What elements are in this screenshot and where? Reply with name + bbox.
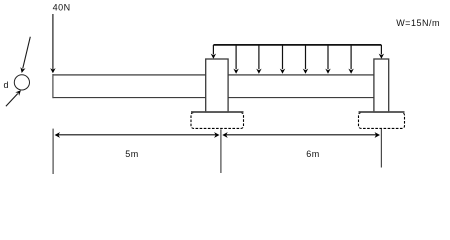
column support right	[374, 59, 389, 113]
distributed load end arrow right	[379, 45, 384, 59]
dimension line 5m	[55, 132, 220, 138]
column support left	[206, 59, 228, 113]
distributed load end arrow left	[211, 45, 216, 59]
distributed load line	[213, 44, 381, 46]
cross-section circle d	[14, 75, 29, 90]
distributed load arrows on beam	[236, 46, 351, 70]
dimension extension line right	[380, 129, 382, 168]
leader arrow lower	[6, 90, 21, 106]
svg-text:W=15N/m: W=15N/m	[396, 18, 440, 28]
svg-text:40N: 40N	[53, 3, 71, 13]
dimension extension line left	[52, 129, 54, 174]
dimension extension line middle	[220, 129, 222, 173]
dimension line 6m	[222, 132, 380, 138]
svg-text:6m: 6m	[306, 149, 320, 159]
point load 40N arrow	[50, 14, 55, 73]
base plate right (dashed)	[359, 112, 405, 128]
beam (horizontal bar)	[53, 74, 381, 98]
svg-text:5m: 5m	[125, 149, 139, 159]
base plate left (dashed)	[191, 112, 244, 128]
leader arrow upper	[20, 37, 30, 73]
svg-text:d: d	[4, 80, 10, 90]
